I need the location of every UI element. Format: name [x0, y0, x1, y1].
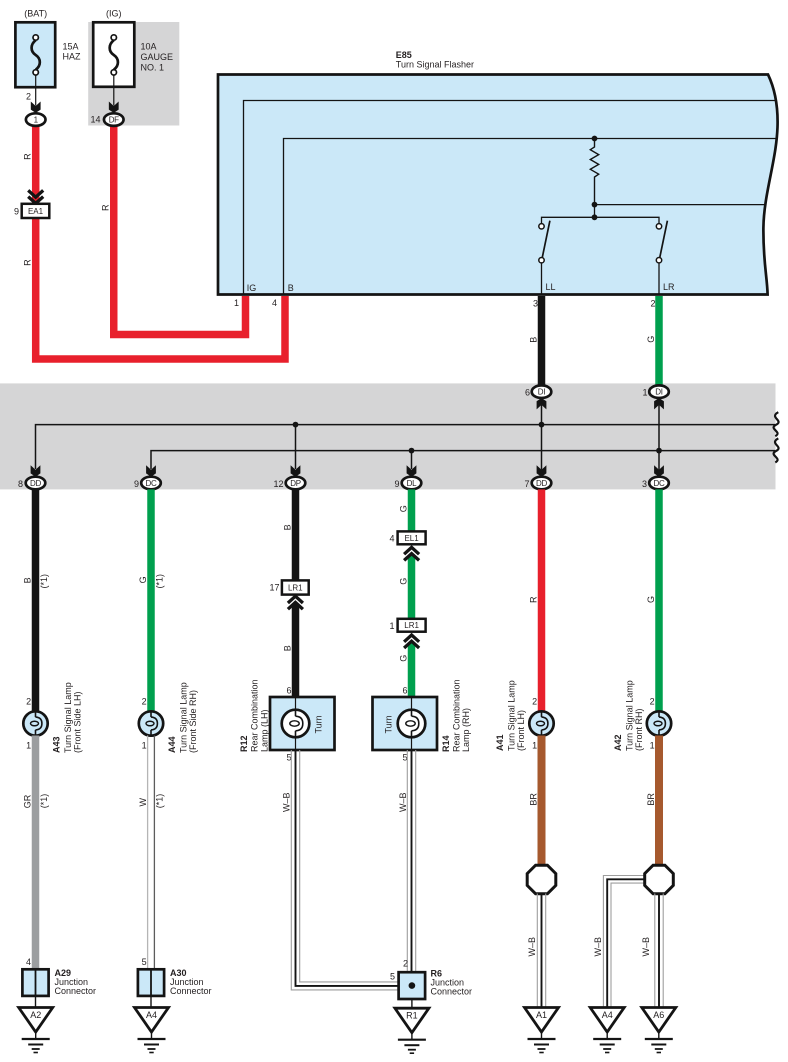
svg-text:A2: A2	[30, 1010, 41, 1020]
svg-text:B: B	[529, 337, 539, 343]
switch LR	[656, 224, 661, 229]
wire G col4 b	[408, 555, 416, 619]
svg-text:GR: GR	[23, 794, 33, 808]
svg-text:W–B: W–B	[398, 792, 408, 812]
svg-text:IG: IG	[247, 283, 257, 293]
svg-text:2: 2	[650, 697, 655, 707]
svg-text:W–B: W–B	[527, 937, 537, 957]
svg-text:W: W	[138, 798, 148, 807]
svg-text:1: 1	[389, 621, 394, 631]
svg-text:6: 6	[525, 388, 530, 398]
wire G from LR	[655, 296, 663, 386]
arrow into DC 3	[654, 465, 664, 476]
svg-text:3: 3	[642, 479, 647, 489]
svg-text:GAUGE: GAUGE	[141, 52, 174, 62]
svg-text:G: G	[138, 576, 148, 583]
ground A2	[19, 1008, 53, 1033]
svg-text:1: 1	[650, 741, 655, 751]
svg-text:(Front Side LH): (Front Side LH)	[73, 691, 83, 753]
svg-text:R: R	[101, 204, 111, 211]
junction dot DP	[293, 422, 299, 428]
junction dot DL	[409, 448, 415, 454]
svg-text:6: 6	[286, 686, 291, 696]
svg-text:6: 6	[402, 686, 407, 696]
arrow into DP 12	[291, 465, 301, 476]
svg-text:Turn Signal Lamp: Turn Signal Lamp	[179, 682, 189, 753]
wire G col4 c	[408, 643, 416, 697]
svg-text:LR: LR	[663, 282, 675, 292]
wire W col2	[147, 736, 149, 970]
connector oval 1	[26, 113, 46, 126]
wire B from LL	[538, 296, 546, 386]
svg-text:BR: BR	[529, 793, 539, 806]
bulb A43	[23, 711, 47, 735]
E85 pin 1 IG internal wire	[244, 101, 776, 295]
junction dot line3	[592, 202, 598, 208]
svg-text:(BAT): (BAT)	[24, 9, 47, 19]
svg-text:5: 5	[390, 972, 395, 982]
bulb A44	[139, 711, 163, 735]
wire R col5	[538, 489, 546, 711]
svg-text:Lamp (LH): Lamp (LH)	[260, 709, 270, 752]
svg-text:A42: A42	[613, 734, 623, 751]
svg-text:R14: R14	[441, 735, 451, 752]
svg-text:5: 5	[142, 957, 147, 967]
wire G col4 a	[408, 489, 416, 531]
svg-text:Turn Signal Lamp: Turn Signal Lamp	[63, 682, 73, 753]
drop wire DP	[295, 425, 297, 469]
svg-text:Lamp (RH): Lamp (RH)	[461, 708, 471, 752]
fuse 15A HAZ (BAT)	[15, 22, 55, 87]
svg-text:R12: R12	[239, 735, 249, 752]
wire B col3 lower	[292, 604, 300, 697]
svg-text:W–B: W–B	[593, 937, 603, 957]
chevrons below EL1	[404, 547, 419, 554]
chevrons into EA1	[28, 197, 43, 204]
arrow into DI 6	[537, 398, 547, 409]
svg-text:(Front Side RH): (Front Side RH)	[188, 690, 198, 753]
bus wire 1	[36, 425, 776, 469]
junction dot DD7	[539, 422, 545, 428]
svg-text:DP: DP	[290, 479, 301, 488]
svg-text:Connector: Connector	[431, 987, 473, 997]
ground A1	[525, 1008, 559, 1033]
svg-text:9: 9	[14, 206, 19, 216]
svg-text:B: B	[283, 524, 293, 530]
wire GR col1	[32, 736, 40, 970]
svg-text:7: 7	[524, 479, 529, 489]
rear combination lamp R14	[373, 697, 438, 750]
svg-text:A4: A4	[602, 1010, 613, 1020]
svg-text:B: B	[23, 577, 33, 583]
wire A30 to ground	[150, 996, 152, 1008]
resistor inside E85	[590, 139, 598, 205]
svg-text:Rear Combination: Rear Combination	[250, 679, 260, 752]
svg-text:DF: DF	[109, 116, 119, 125]
svg-text:(Front LH): (Front LH)	[516, 710, 526, 751]
junction dot on B line	[592, 136, 598, 142]
wire BR col6	[655, 736, 663, 867]
svg-text:9: 9	[394, 479, 399, 489]
internal wire to right break	[595, 204, 766, 206]
junction connector A29	[22, 969, 48, 996]
svg-text:Connector: Connector	[170, 986, 212, 996]
fuse 10A GAUGE NO.1 (IG)	[93, 22, 134, 87]
chevrons below LR1 17	[288, 596, 303, 603]
junction dot feed bar	[592, 214, 598, 220]
svg-text:DL: DL	[407, 479, 417, 488]
svg-text:2: 2	[650, 299, 655, 309]
svg-text:G: G	[399, 655, 409, 662]
bulb A41	[529, 711, 553, 735]
svg-text:5: 5	[286, 753, 291, 763]
svg-text:17: 17	[269, 583, 279, 593]
svg-text:DI: DI	[538, 388, 545, 397]
svg-text:15A: 15A	[63, 42, 79, 52]
svg-text:2: 2	[26, 697, 31, 707]
svg-text:(*1): (*1)	[39, 574, 49, 589]
wire G col6	[655, 489, 663, 711]
svg-text:Turn Signal Flasher: Turn Signal Flasher	[396, 60, 474, 70]
arrow into DL 9	[407, 465, 417, 476]
junction connector R6	[399, 972, 426, 999]
switch LL	[539, 224, 544, 229]
svg-text:3: 3	[533, 299, 538, 309]
internal wire resistor to switch bar	[594, 205, 596, 218]
junction connector A30	[138, 969, 164, 996]
svg-text:2: 2	[26, 92, 31, 102]
svg-text:12: 12	[273, 479, 283, 489]
svg-text:NO. 1: NO. 1	[141, 63, 165, 73]
svg-text:A1: A1	[536, 1010, 547, 1020]
svg-text:DC: DC	[146, 479, 157, 488]
through wire DI-DC	[658, 405, 660, 470]
junction dot DC3	[656, 448, 662, 454]
relay box E85 Turn Signal Flasher	[218, 75, 778, 295]
svg-text:(*1): (*1)	[154, 794, 164, 809]
svg-text:1: 1	[142, 741, 147, 751]
wire W-B from R14 to R6	[406, 750, 408, 972]
svg-text:W–B: W–B	[282, 792, 292, 812]
svg-text:HAZ: HAZ	[63, 52, 82, 62]
wire B col3 upper	[292, 489, 300, 580]
svg-text:2: 2	[142, 697, 147, 707]
svg-text:9: 9	[134, 479, 139, 489]
svg-text:(Front RH): (Front RH)	[634, 708, 644, 751]
svg-text:G: G	[399, 505, 409, 512]
svg-text:A4: A4	[146, 1010, 157, 1020]
svg-text:DI: DI	[655, 388, 662, 397]
svg-text:R: R	[529, 596, 539, 603]
wire BR col5	[538, 736, 546, 867]
ground A4 left	[135, 1008, 169, 1033]
svg-text:LR1: LR1	[404, 621, 419, 630]
arrow into DC 9	[146, 465, 156, 476]
svg-text:5: 5	[402, 753, 407, 763]
arrow into DI 1	[654, 398, 664, 409]
splice octagon col5	[527, 865, 556, 894]
arrow into DD 7	[537, 465, 547, 476]
engine room main wire shading band	[0, 383, 776, 489]
svg-text:B: B	[283, 645, 293, 651]
svg-text:(IG): (IG)	[106, 9, 122, 19]
svg-text:R: R	[23, 153, 33, 160]
arrow into DD 8	[31, 465, 41, 476]
ground A6	[642, 1008, 676, 1033]
svg-text:BR: BR	[646, 793, 656, 806]
svg-text:Turn: Turn	[314, 715, 324, 733]
svg-text:Turn Signal Lamp: Turn Signal Lamp	[507, 680, 517, 751]
svg-text:1: 1	[642, 388, 647, 398]
svg-text:EA1: EA1	[28, 207, 44, 216]
svg-text:2: 2	[532, 697, 537, 707]
svg-text:DD: DD	[30, 479, 41, 488]
svg-text:8: 8	[18, 479, 23, 489]
svg-text:4: 4	[272, 298, 277, 308]
svg-text:Rear Combination: Rear Combination	[452, 679, 462, 752]
wire G col2	[147, 489, 155, 711]
svg-text:Turn Signal Lamp: Turn Signal Lamp	[625, 680, 635, 751]
svg-text:E85: E85	[396, 50, 412, 60]
svg-text:W–B: W–B	[641, 937, 651, 957]
svg-text:Connector: Connector	[55, 986, 97, 996]
wire R6 to ground	[411, 999, 413, 1008]
svg-text:1: 1	[26, 741, 31, 751]
svg-text:14: 14	[90, 115, 100, 125]
wire B col1	[32, 489, 40, 711]
through wire DI-DD	[541, 405, 543, 470]
svg-text:B: B	[288, 283, 294, 293]
svg-text:R: R	[23, 259, 33, 266]
svg-text:(*1): (*1)	[154, 574, 164, 589]
bulb R14 Turn	[398, 710, 426, 738]
wire W-B col6	[654, 894, 656, 1008]
svg-text:Turn: Turn	[384, 715, 394, 733]
bulb A42	[647, 711, 671, 735]
break squiggle bus 1	[774, 412, 779, 436]
svg-text:DD: DD	[536, 479, 547, 488]
wire A29 to ground	[35, 996, 37, 1008]
svg-text:DC: DC	[654, 479, 665, 488]
svg-text:EL1: EL1	[404, 534, 419, 543]
svg-text:(*1): (*1)	[39, 794, 49, 809]
connector oval DF	[104, 113, 124, 126]
svg-text:G: G	[646, 336, 656, 343]
arrow into connector DF	[109, 102, 119, 113]
svg-text:A44: A44	[167, 736, 177, 753]
svg-text:A6: A6	[653, 1010, 664, 1020]
svg-text:4: 4	[26, 957, 31, 967]
wire W-B col5	[536, 894, 538, 1008]
ground A4 right	[590, 1008, 624, 1033]
svg-text:LL: LL	[546, 282, 556, 292]
svg-text:1: 1	[234, 298, 239, 308]
svg-text:10A: 10A	[141, 42, 157, 52]
switch feed bar	[542, 217, 660, 223]
svg-text:A41: A41	[495, 734, 505, 751]
instrument panel junction block shading	[88, 22, 179, 126]
svg-text:1: 1	[532, 741, 537, 751]
wire W-B from R12 to R6	[300, 750, 399, 982]
bulb R12 Turn	[282, 710, 310, 738]
rear combination lamp R12	[270, 697, 335, 750]
wire R from fuse HAZ to pin 4 B	[36, 124, 285, 359]
svg-text:LR1: LR1	[288, 583, 303, 592]
break squiggle bus 2	[774, 438, 779, 462]
svg-text:2: 2	[403, 959, 408, 969]
arrow into connector 1	[31, 102, 41, 113]
ground R1	[395, 1008, 429, 1032]
drop wire DL	[411, 451, 413, 469]
E85 pin 4 B internal wire	[284, 139, 777, 295]
svg-text:R1: R1	[406, 1011, 418, 1021]
splice octagon col6	[645, 865, 674, 894]
wire R from fuse GAUGE to pin 1 IG	[114, 124, 246, 335]
svg-text:G: G	[646, 596, 656, 603]
chevrons below LR1 1	[404, 635, 419, 642]
svg-text:A43: A43	[52, 736, 62, 753]
svg-text:G: G	[399, 578, 409, 585]
bus wire 2	[151, 451, 775, 469]
wire W-B branch to A4	[603, 876, 645, 1008]
svg-text:4: 4	[389, 534, 394, 544]
